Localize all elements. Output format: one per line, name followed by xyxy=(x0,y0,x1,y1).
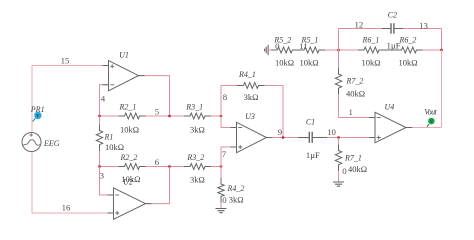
source plus mark xyxy=(30,133,33,136)
junction node 10 xyxy=(337,136,340,139)
svg-text:13: 13 xyxy=(419,21,428,31)
wire feedback rail y85.5 xyxy=(221,86,283,138)
svg-text:R4_1: R4_1 xyxy=(238,70,256,79)
op-amp U2 triangle xyxy=(114,188,146,219)
wire R7_2 column net 1 xyxy=(339,50,376,118)
svg-text:0: 0 xyxy=(342,166,347,176)
resistor R1 xyxy=(96,125,102,151)
op-amp U4 minus mark xyxy=(377,117,381,119)
svg-text:10kΩ: 10kΩ xyxy=(398,57,417,67)
wire node 7 column xyxy=(221,147,237,167)
resistor R5_2 xyxy=(271,47,298,53)
svg-text:10kΩ: 10kΩ xyxy=(275,57,294,67)
svg-text:R1: R1 xyxy=(104,132,114,141)
wire C2 top loop xyxy=(339,29,442,51)
junction node 9 xyxy=(282,136,285,139)
svg-text:U1: U1 xyxy=(119,51,129,60)
resistor R7_1 xyxy=(335,145,341,171)
svg-text:0: 0 xyxy=(222,195,227,205)
svg-text:R7_2: R7_2 xyxy=(346,77,364,86)
svg-text:40kΩ: 40kΩ xyxy=(346,89,365,99)
svg-text:3kΩ: 3kΩ xyxy=(190,124,205,134)
wire U3 output line y137.5 xyxy=(267,137,376,139)
junction node 6 xyxy=(168,165,171,168)
probe PR1 tail xyxy=(33,118,36,121)
source waveform xyxy=(23,140,40,146)
svg-text:C2: C2 xyxy=(388,10,397,19)
svg-text:U3: U3 xyxy=(245,112,255,121)
svg-text:R5_1: R5_1 xyxy=(301,36,319,45)
probe Vout tail xyxy=(427,124,429,127)
wire R4_2 column xyxy=(220,167,222,209)
svg-text:C1: C1 xyxy=(306,117,315,126)
svg-text:7: 7 xyxy=(222,149,227,159)
svg-text:10kΩ: 10kΩ xyxy=(120,124,139,134)
wire rail net3 y166.5 xyxy=(100,166,222,168)
svg-text:U4: U4 xyxy=(385,103,395,112)
resistor R6_2 xyxy=(396,47,423,53)
wire rail net4 y116 xyxy=(100,115,222,117)
op-amp U3 minus mark xyxy=(238,127,242,129)
op-amp U4 triangle xyxy=(375,112,406,142)
wire U2 inverting input xyxy=(100,167,114,196)
svg-text:V: V xyxy=(36,114,40,120)
wire gray link R6_1-R6_2 xyxy=(380,49,403,51)
junction node 4/R1 xyxy=(98,115,101,118)
svg-text:R6_2: R6_2 xyxy=(399,35,417,44)
svg-text:12: 12 xyxy=(355,19,364,29)
wire node 8 column xyxy=(221,86,237,128)
junction rail/right column xyxy=(440,49,443,52)
svg-text:V: V xyxy=(430,119,434,125)
svg-text:16: 16 xyxy=(62,203,71,213)
op-amp U3 triangle xyxy=(237,122,267,152)
junction node 3 xyxy=(98,165,101,168)
ground below R7_1 xyxy=(333,182,344,186)
svg-text:R2_1: R2_1 xyxy=(119,103,137,112)
svg-text:5: 5 xyxy=(155,107,160,117)
resistor R7_2 xyxy=(335,68,341,94)
op-amp U3 plus mark xyxy=(238,145,242,149)
svg-text:6: 6 xyxy=(155,157,160,167)
svg-text:1µF: 1µF xyxy=(306,150,320,160)
wire U1 inverting input net 4 xyxy=(100,85,109,116)
svg-text:10kΩ: 10kΩ xyxy=(105,142,124,152)
svg-text:R3_2: R3_2 xyxy=(186,153,204,162)
capacitor C2 plates xyxy=(391,23,394,34)
source PR1/EEG circle xyxy=(22,133,41,152)
svg-text:8: 8 xyxy=(223,92,228,102)
resistor R3_2 xyxy=(184,164,211,170)
resistor R2_1 xyxy=(119,113,146,119)
svg-text:R6_1: R6_1 xyxy=(362,35,380,44)
capacitor C1 leads xyxy=(298,137,327,139)
wire U1 output to node 5 xyxy=(139,76,170,116)
op-amp U1 minus mark xyxy=(110,84,114,86)
svg-text:R3_1: R3_1 xyxy=(185,103,203,112)
ground below R4_2 xyxy=(216,209,227,213)
wire left vertical below source xyxy=(32,152,114,214)
op-amp U1 triangle xyxy=(109,61,139,91)
op-amp U2 minus mark xyxy=(115,194,119,196)
capacitor C1 plates xyxy=(309,132,312,143)
junction node 5 xyxy=(168,115,171,118)
resistor R4_2 xyxy=(218,178,224,203)
op-amp pin stubs gray xyxy=(103,66,413,214)
probe PR1 circle xyxy=(34,112,41,119)
op-amp U1 plus mark xyxy=(110,64,114,68)
svg-text:PR1: PR1 xyxy=(30,105,45,114)
svg-text:1: 1 xyxy=(348,107,352,117)
svg-text:3kΩ: 3kΩ xyxy=(190,175,205,185)
svg-text:3: 3 xyxy=(100,170,105,180)
svg-text:10kΩ: 10kΩ xyxy=(300,57,319,67)
junction node 7 rail xyxy=(220,165,223,168)
junction node 8 rail xyxy=(220,115,223,118)
junction rail/R7_2 xyxy=(337,49,340,52)
resistor R6_1 xyxy=(358,47,385,53)
svg-text:Vout: Vout xyxy=(424,107,437,116)
svg-text:3kΩ: 3kΩ xyxy=(244,92,259,102)
svg-text:EEG: EEG xyxy=(43,139,60,148)
svg-text:10: 10 xyxy=(327,127,336,137)
svg-text:R4_2: R4_2 xyxy=(227,184,245,193)
svg-text:R2_2: R2_2 xyxy=(119,153,137,162)
wire rail y50 xyxy=(268,49,441,51)
resistor R4_1 xyxy=(238,83,265,89)
op-amp U2 plus mark xyxy=(115,211,119,215)
svg-text:R7_1: R7_1 xyxy=(344,153,362,162)
wire R1 column xyxy=(99,116,101,167)
resistor R5_1 xyxy=(298,47,325,53)
svg-text:40kΩ: 40kΩ xyxy=(348,164,367,174)
capacitor C2 leads xyxy=(382,28,403,30)
wire net 15 top horizontal xyxy=(32,66,109,133)
wire U4 output to right column xyxy=(406,50,442,128)
op-amp U4 plus mark xyxy=(377,136,381,140)
svg-text:3kΩ: 3kΩ xyxy=(229,194,244,204)
resistor R2_2 xyxy=(119,164,146,170)
svg-text:R5_2: R5_2 xyxy=(273,35,291,44)
probe Vout circle xyxy=(428,118,435,125)
svg-text:15: 15 xyxy=(61,56,70,66)
svg-text:10kΩ: 10kΩ xyxy=(361,57,380,67)
wire U2 output to node 6 xyxy=(146,167,170,204)
svg-text:U2: U2 xyxy=(123,177,133,186)
wire R7_1 column xyxy=(338,138,340,183)
svg-text:4: 4 xyxy=(101,93,106,103)
resistor R3_1 xyxy=(184,113,211,119)
svg-text:9: 9 xyxy=(278,127,283,137)
ground at node 0 top left xyxy=(265,45,269,55)
